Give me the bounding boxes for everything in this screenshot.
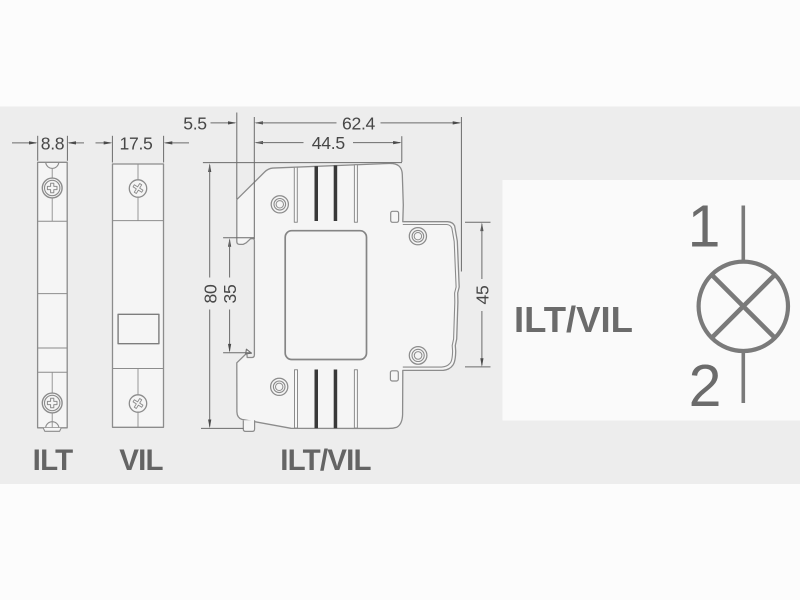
svg-text:45: 45	[473, 285, 493, 304]
svg-text:17.5: 17.5	[119, 133, 153, 153]
top thick bar 1	[315, 166, 319, 221]
rivet lower right	[409, 347, 427, 365]
svg-text:44.5: 44.5	[312, 133, 346, 153]
lamp top lead wire	[741, 206, 745, 263]
rivet upper right	[409, 228, 426, 245]
ILT bottom screw	[42, 393, 62, 413]
dimension 45	[465, 222, 491, 367]
VIL divider lines	[113, 221, 164, 369]
lamp symbol circle	[699, 262, 788, 351]
DIN clip tooth	[246, 349, 252, 354]
svg-text:5.5: 5.5	[183, 114, 207, 134]
ILT top recess arc	[46, 163, 59, 169]
ILT divider lines	[38, 221, 68, 372]
VIL front view body	[113, 164, 164, 427]
dimension 5.5	[211, 113, 237, 200]
VIL top screw	[129, 180, 146, 197]
bottom thick bar 1	[315, 370, 319, 429]
svg-text:35: 35	[220, 284, 240, 303]
rivet lower left	[271, 378, 288, 395]
svg-text:62.4: 62.4	[342, 113, 376, 133]
top thin slot left	[294, 167, 297, 222]
VIL centerlines	[137, 164, 139, 427]
dimension 8.8	[12, 136, 84, 161]
terminal inner contour	[403, 225, 456, 368]
top thick bar 2	[334, 165, 338, 221]
svg-text:VIL: VIL	[119, 444, 163, 477]
dimension 44.5	[254, 136, 401, 162]
ILT/VIL side profile body outline	[237, 163, 459, 428]
ILT side view body	[38, 162, 68, 428]
dimension 35	[223, 238, 254, 353]
label window rounded rect	[285, 231, 366, 360]
bottom thin slot left	[295, 370, 298, 428]
gray drawing panel	[0, 107, 800, 485]
lamp bottom lead wire	[741, 350, 745, 403]
bottom foot tab	[243, 420, 254, 431]
top thin slot right	[354, 165, 357, 223]
lamp symbol X diagonals	[712, 275, 774, 337]
VIL bottom screw	[129, 395, 146, 412]
dimension 17.5	[96, 136, 190, 163]
bottom thick bar 2	[334, 370, 338, 429]
dimension 80	[201, 163, 402, 429]
svg-text:ILT/VIL: ILT/VIL	[280, 444, 371, 477]
ILT centerlines	[51, 169, 53, 428]
svg-text:ILT/VIL: ILT/VIL	[514, 299, 633, 340]
ILT bottom foot tab	[43, 428, 61, 431]
svg-text:1: 1	[688, 194, 721, 260]
svg-text:80: 80	[200, 284, 220, 303]
white band right	[503, 180, 800, 421]
svg-text:8.8: 8.8	[41, 133, 65, 153]
dimension 62.4	[254, 117, 461, 272]
ILT top screw	[42, 178, 62, 198]
rivet upper left	[271, 196, 288, 213]
svg-text:ILT: ILT	[33, 444, 73, 477]
bottom thin slot right	[354, 370, 357, 428]
ILT bottom dome	[46, 422, 59, 428]
clip square upper right	[391, 211, 399, 222]
svg-text:2: 2	[689, 353, 722, 419]
VIL window	[118, 314, 159, 343]
clip square lower right	[390, 371, 398, 381]
